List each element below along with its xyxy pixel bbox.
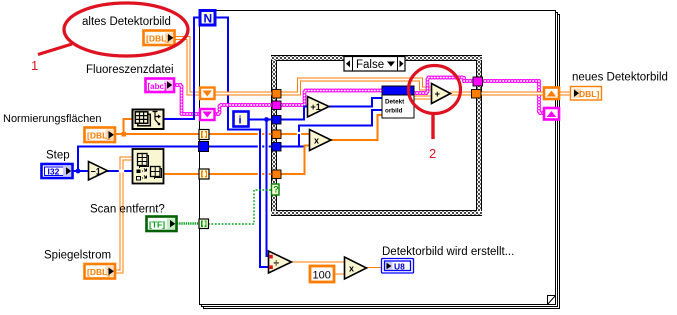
- svg-text:i: i: [239, 115, 242, 127]
- wire: N down to divide bottom input: [215, 18, 269, 268]
- while loop stacked page 2: [202, 13, 558, 307]
- divide node: [269, 251, 292, 273]
- wire: 100 to multiply2: [334, 273, 345, 275]
- loop tunnel: boolean auto-index: [199, 219, 209, 229]
- control terminal Scan entfernt TF: [147, 217, 177, 232]
- multiply node: [310, 130, 332, 151]
- svg-text:DBL]: DBL]: [579, 89, 599, 99]
- case tunnel blue step: [272, 143, 281, 152]
- svg-text:÷: ÷: [274, 259, 280, 270]
- red annotation line 1: [38, 44, 72, 55]
- right shift register magenta: [544, 108, 559, 120]
- in-case wire: multiply output to local variable input 3: [331, 115, 382, 140]
- redraw verticals over gaps: [259, 130, 261, 268]
- in-case wire: add node output to right tunnel: [451, 92, 473, 96]
- multiply node 2: [345, 257, 367, 279]
- in-case wire: step to local variable input 2: [281, 110, 382, 147]
- svg-text:x: x: [314, 136, 319, 146]
- wire: Step to -1 node: [73, 170, 88, 172]
- crossing gaps on horizontal wires: [258, 132, 269, 177]
- in-case wire: i to +1 node: [281, 107, 308, 120]
- svg-text:[abc]: [abc]: [148, 82, 167, 91]
- svg-text:N: N: [204, 12, 213, 26]
- svg-text:orbild: orbild: [385, 108, 403, 115]
- case selector terminal ?: [272, 184, 280, 195]
- svg-text:+1: +1: [311, 102, 321, 112]
- indicator terminal U8: [382, 259, 414, 274]
- red annotation ellipse 2: [409, 66, 461, 114]
- svg-text:I32: I32: [48, 167, 60, 177]
- loop tunnel: Step scalar: [199, 142, 209, 152]
- in-case wire: local variable 2D output to add node: [414, 96, 432, 100]
- control terminal Spiegelstrom DBL: [85, 264, 116, 279]
- for loop frame page 1: [200, 11, 556, 305]
- junction dot Step: [76, 169, 81, 174]
- junction dot: [122, 132, 127, 137]
- svg-text:−1: −1: [91, 167, 101, 177]
- in-case wire: 2D array from tunnel up and to add node: [281, 80, 432, 94]
- svg-text:Detekt: Detekt: [385, 99, 405, 106]
- svg-text:?: ?: [273, 184, 279, 194]
- case tunnels right: magenta: [473, 77, 483, 86]
- Detektorbild local variable: [382, 86, 414, 118]
- wire: Spiegelstrom 2D array up into build icon: [115, 159, 132, 272]
- +1 increment node: [308, 97, 330, 118]
- svg-text:Step: Step: [46, 150, 70, 162]
- case selector label False: [344, 57, 405, 72]
- case tunnel blue i: [272, 116, 281, 125]
- svg-text:Spiegelstrom: Spiegelstrom: [44, 250, 111, 262]
- wire: Normierung tunnel to case tunnel: [209, 133, 272, 135]
- in-case wire: orange from tunnel up to multiply bottom input: [281, 146, 310, 175]
- red annotation ellipse 1: [64, 3, 188, 56]
- wire: altes Detektorbild 2D array to left shift register: [175, 38, 200, 94]
- in-case wire: +1 output to local variable input 1: [329, 98, 382, 107]
- svg-text:Fluoreszenzdatei: Fluoreszenzdatei: [86, 64, 174, 76]
- svg-text:Scan entfernt?: Scan entfernt?: [90, 204, 165, 216]
- in-case wire: chain from tunnel to local variable: [281, 91, 382, 106]
- wire: build array tunnel to case tunnel: [209, 173, 272, 175]
- wire: case right orange tunnel 2D to right shift register: [481, 92, 544, 96]
- while loop stacked page 3: [204, 15, 560, 309]
- svg-text:100: 100: [313, 270, 331, 282]
- svg-text:[DBL]: [DBL]: [146, 34, 169, 44]
- svg-text:U8: U8: [394, 262, 405, 272]
- indicator terminal neues Detektorbild DBL: [571, 87, 602, 101]
- wire: right SR out to neues Detektorbild: [559, 92, 571, 96]
- svg-text:[TF]: [TF]: [149, 219, 165, 229]
- svg-text:False: False: [356, 59, 384, 71]
- loop tunnel: build array auto-index: [199, 169, 209, 179]
- right shift register orange: [544, 88, 559, 100]
- wire: divide output to multiply2: [292, 261, 345, 263]
- fold corner bottom-right: [548, 296, 556, 305]
- -1 decrement node: [89, 162, 108, 181]
- control terminal Normierungsflaechen DBL: [85, 128, 116, 143]
- loop tunnel: Normierung auto-index: [199, 130, 209, 140]
- svg-text:[DBL]: [DBL]: [87, 131, 110, 141]
- case tunnel orange build: [272, 170, 281, 179]
- case tunnels left: orange 2D: [272, 90, 281, 99]
- in-case wire: orange to multiply top input: [281, 133, 310, 135]
- svg-text:+: +: [435, 89, 441, 100]
- wire: magenta SR chain to case tunnel: [215, 105, 272, 114]
- wire: boolean tunnel to case selector: [208, 190, 271, 224]
- wire: branch up into array-size icon: [124, 119, 133, 134]
- wire: i terminal to case tunnel and divide: [249, 119, 272, 121]
- wire: case right magenta tunnel chain to right shift register: [482, 81, 544, 113]
- wire: multiply2 to U8 indicator: [366, 267, 382, 269]
- build array icon: [133, 149, 164, 184]
- wire: orange SR to case tunnel 2D: [215, 92, 272, 96]
- wire: Step branch up into loop tunnel: [78, 147, 199, 172]
- control terminal Fluoreszenzdatei abc: [146, 79, 175, 93]
- svg-text:1: 1: [31, 58, 38, 73]
- control terminal altes Detektorbild DBL: [144, 31, 175, 46]
- in-case wire: chain from local variable to right tunnel: [414, 78, 473, 94]
- wire: build icon output to loop tunnel: [164, 173, 199, 175]
- wire: -1 node to build icon: [107, 170, 132, 172]
- svg-text:neues Detektorbild: neues Detektorbild: [572, 72, 668, 84]
- case tunnel right orange: [472, 90, 482, 99]
- svg-text:2: 2: [429, 146, 436, 161]
- left shift register magenta: [200, 109, 215, 120]
- left shift register orange: [200, 88, 215, 100]
- constant 100: [310, 266, 334, 282]
- red annotation line 2: [431, 113, 434, 139]
- case tunnel magenta: [272, 101, 281, 110]
- svg-text:[DBL]: [DBL]: [87, 267, 110, 277]
- case structure border: [271, 55, 482, 216]
- wire: step tunnel to case tunnel: [208, 146, 272, 148]
- wire: Normierungsflaechen array to tunnel: [115, 133, 199, 135]
- add node: [432, 84, 451, 104]
- wire: Scan entfernt to loop tunnel: [177, 222, 199, 224]
- svg-text:Detektorbild wird erstellt...: Detektorbild wird erstellt...: [382, 246, 514, 258]
- wire: Fluoreszenzdatei string chain to left shift register: [174, 85, 200, 114]
- svg-text:altes Detektorbild: altes Detektorbild: [82, 16, 171, 28]
- i iteration terminal: [234, 112, 249, 127]
- control terminal Step I32: [42, 164, 73, 178]
- N count terminal: [200, 11, 215, 26]
- wire: icon to N count terminal: [164, 18, 200, 120]
- case tunnel orange: [272, 130, 281, 139]
- array size icon: [133, 110, 164, 130]
- svg-text:Normierungsflächen: Normierungsflächen: [3, 113, 101, 125]
- svg-text:x: x: [349, 264, 354, 274]
